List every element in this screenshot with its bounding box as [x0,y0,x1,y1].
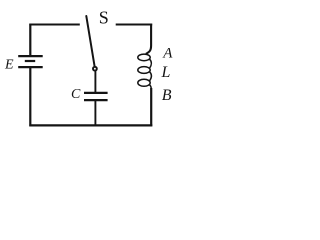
capacitor C plate bottom [84,99,108,101]
switch S blade [86,16,94,66]
wire top-left horizontal [29,24,79,26]
wire right vertical lower [150,88,152,126]
battery E plate long top [18,55,43,57]
svg-text:A: A [162,46,173,62]
svg-text:L: L [161,64,171,81]
inductor L loop 2 [138,67,150,74]
switch S pivot circle [93,67,97,71]
battery E plate short [25,60,35,62]
svg-text:S: S [99,7,109,27]
wire top-right horizontal [116,24,153,26]
inductor exit hook [150,85,152,90]
inductor L loop 3 [138,79,150,86]
wire pivot to capacitor [94,71,96,93]
wire left vertical upper [29,24,31,57]
wire capacitor to bottom [94,101,96,127]
svg-text:C: C [71,87,81,102]
wire right vertical upper with hook into coil [146,24,151,54]
wire left vertical lower [29,67,31,126]
inductor L loop 1 [138,54,150,61]
capacitor C plate top [84,92,108,94]
inductor connector loop1-loop2 [150,59,152,68]
inductor connector loop2-loop3 [150,72,152,81]
battery E plate long bottom [18,66,43,68]
wire bottom horizontal [29,124,152,126]
svg-text:E: E [4,58,14,73]
svg-text:B: B [162,87,172,104]
